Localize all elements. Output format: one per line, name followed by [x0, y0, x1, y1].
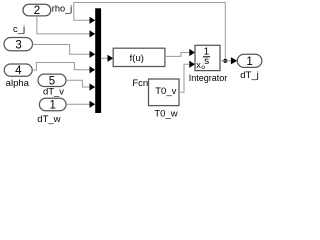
svg-text:Fcn: Fcn [132, 78, 148, 89]
svg-text:3: 3 [15, 39, 21, 51]
svg-text:2: 2 [34, 5, 40, 17]
node junction dot on integrator output [223, 59, 227, 63]
svg-text:1: 1 [246, 56, 252, 68]
constant T0_w (shows T0_v) [149, 79, 180, 106]
mux input arrowheads [90, 17, 96, 24]
wire rho_j to mux input 2 [37, 16, 90, 34]
svg-text:4: 4 [15, 65, 22, 77]
Fcn block [113, 48, 165, 66]
svg-text:T0_w: T0_w [154, 108, 177, 119]
wire alpha to mux input 4 [32, 63, 90, 71]
wire Fcn to Integrator input 1 [165, 53, 190, 57]
integrator U1 [195, 45, 220, 70]
svg-text:dT_j: dT_j [240, 70, 258, 81]
inport 5 [38, 74, 66, 86]
svg-text:Integrator: Integrator [189, 73, 228, 83]
svg-text:o: o [201, 64, 205, 71]
wire dT_w to mux input 6 [66, 103, 90, 105]
svg-text:f(u): f(u) [130, 53, 144, 64]
inport 1 [39, 98, 66, 111]
inport 4 [4, 64, 32, 76]
wire feedback loop from integrator output node to mux input 1 [74, 3, 226, 61]
wire c_j to mux input 3 [33, 45, 90, 55]
wire integrator output to outport [220, 60, 232, 62]
svg-text:dT_w: dT_w [37, 114, 60, 125]
wire dT_v to mux input 5 [66, 80, 90, 87]
svg-text:1: 1 [49, 100, 55, 112]
svg-text:s: s [204, 56, 209, 67]
wire mux output to Fcn [101, 57, 108, 59]
outport 1 [237, 54, 262, 67]
svg-text:dT_v: dT_v [43, 86, 64, 97]
wire T0 to Integrator x0 input [179, 64, 190, 92]
svg-text:T0_v: T0_v [155, 86, 176, 97]
svg-text:c_j: c_j [13, 24, 25, 35]
svg-text:alpha: alpha [6, 78, 30, 89]
mux M1 [95, 8, 101, 113]
inport 2 [23, 4, 51, 16]
inport 3 [4, 38, 33, 51]
svg-text:rho_j: rho_j [52, 4, 72, 14]
